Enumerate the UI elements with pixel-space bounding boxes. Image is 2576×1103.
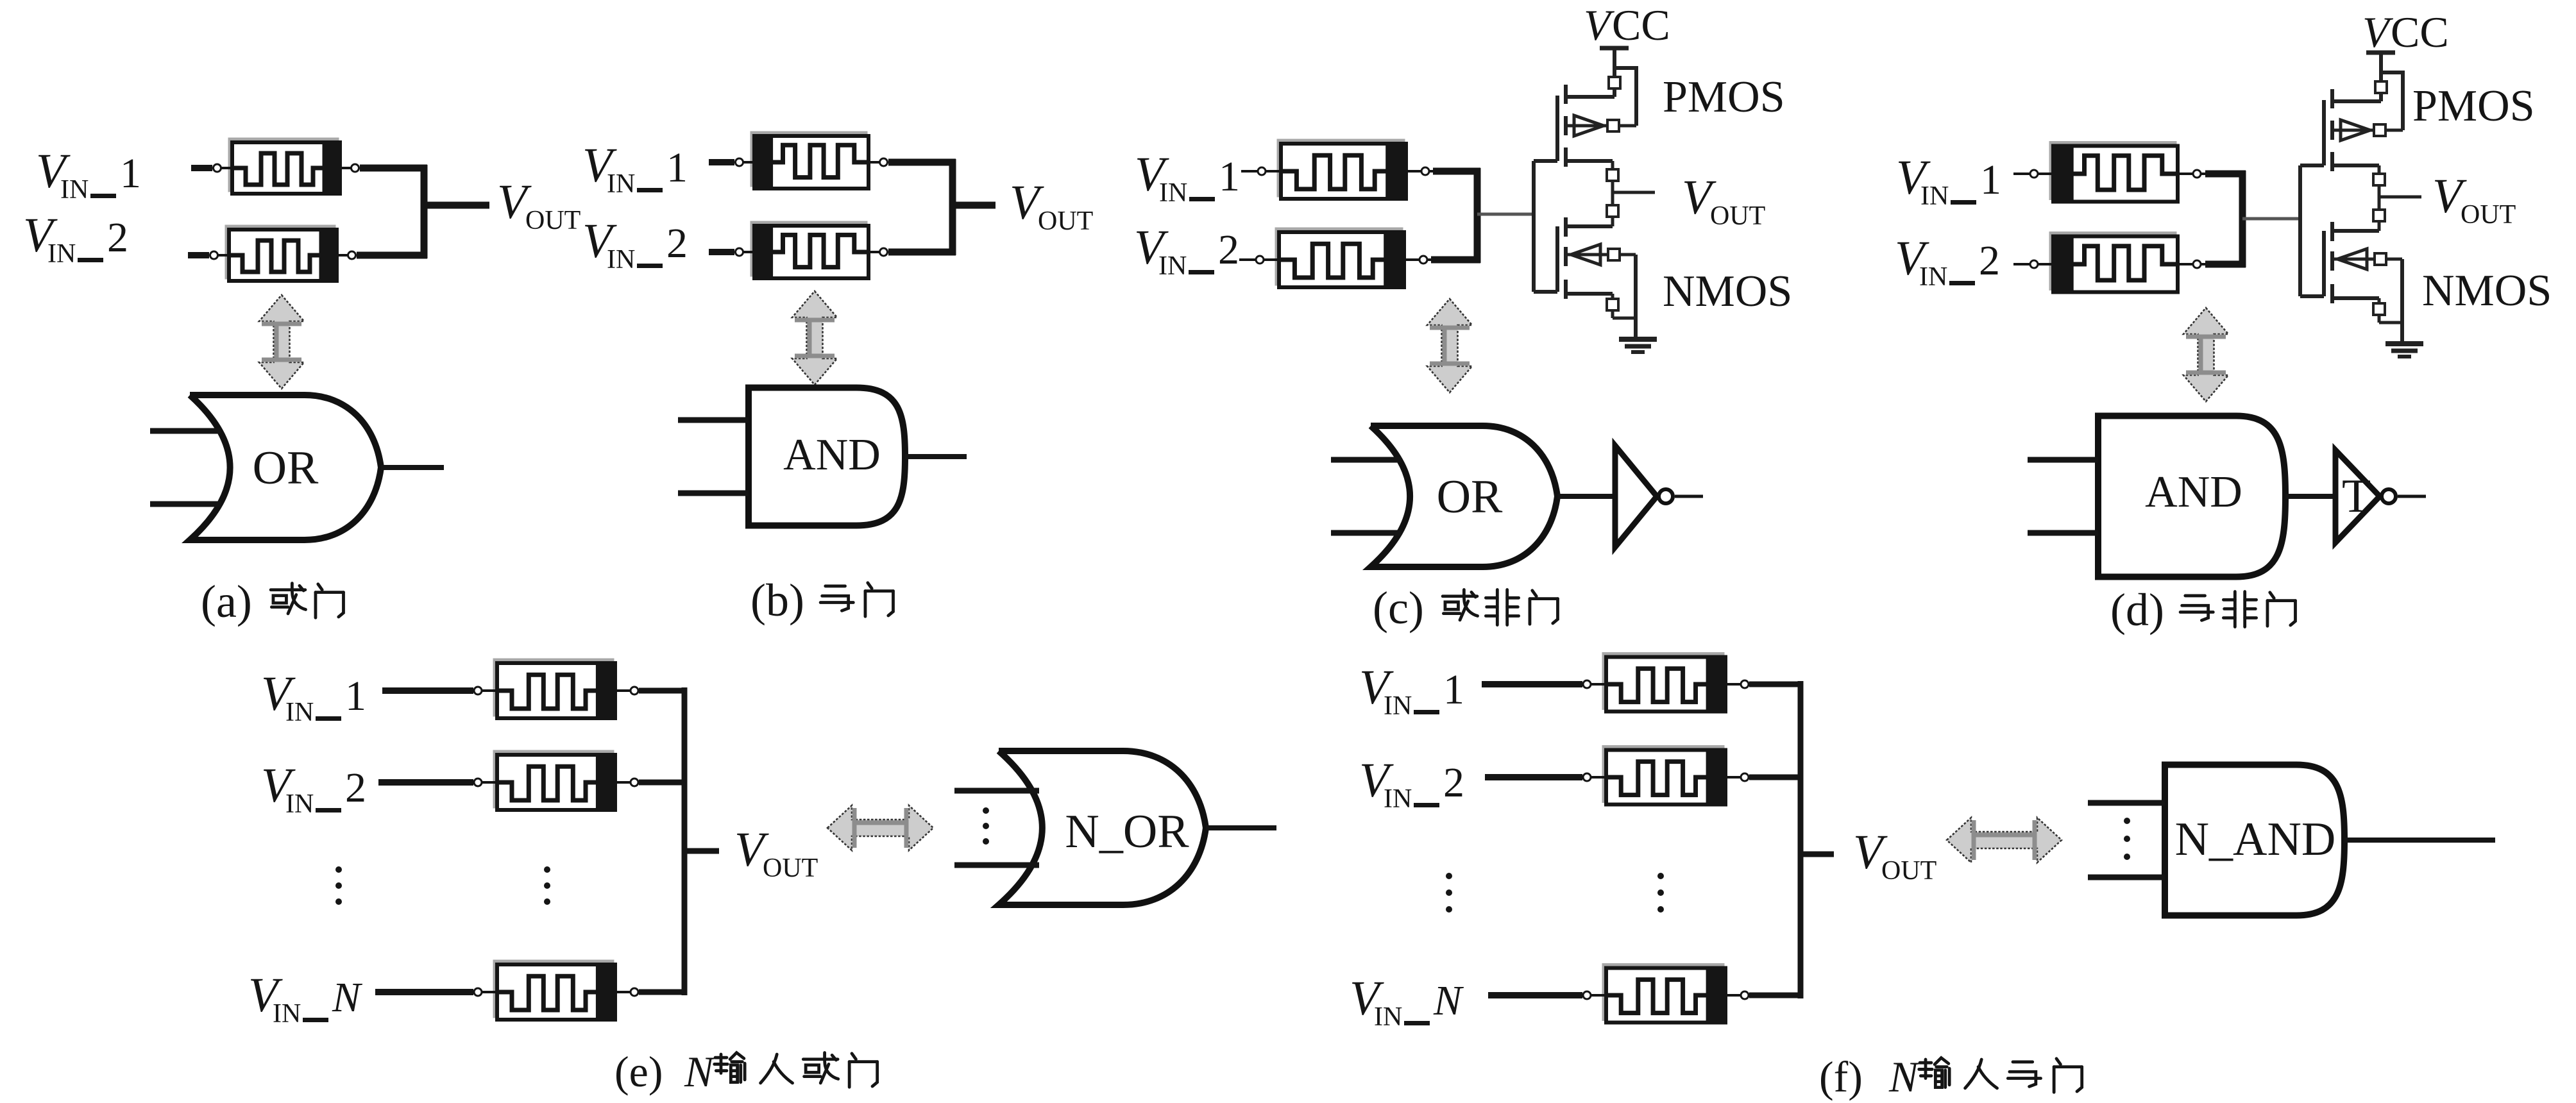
- (d) NMOS channel segments: [2330, 222, 2334, 241]
- wire V_IN_2 to memristor M2 (e): [378, 779, 473, 786]
- (d) PMOS body contact square: [2374, 124, 2385, 136]
- (d) NMOS source to rail wire: [2378, 315, 2381, 323]
- (c) NMOS body to ground rail: [1620, 253, 1636, 257]
- memristor M1 (d): [2013, 143, 2206, 202]
- wire M1 output to junction (d): [2205, 171, 2246, 178]
- svg-text:1: 1: [1980, 156, 2001, 203]
- memristor M2 (b): [736, 223, 888, 278]
- svg-text:1: 1: [345, 673, 366, 720]
- svg-text:(a): (a): [201, 576, 252, 627]
- caption (b) AND gate: [750, 575, 893, 626]
- (d) PMOS drain stub: [2332, 99, 2381, 103]
- junction bar (a): [421, 165, 428, 258]
- (d) NMOS body to ground rail: [2386, 258, 2402, 261]
- OR gate symbol (c): [1331, 426, 1613, 567]
- ellipsis dots left (e): [335, 866, 342, 905]
- svg-text:PMOS: PMOS: [2412, 81, 2535, 131]
- (c) wire to NMOS drain: [1611, 217, 1614, 226]
- (d) NMOS body contact square: [2375, 253, 2386, 265]
- ellipsis dots left (f): [1446, 873, 1452, 913]
- junction bar (c): [1474, 168, 1481, 263]
- net label V_IN_1 (c): [1135, 147, 1240, 208]
- (d) wire stem to PMOS drain: [2379, 93, 2383, 101]
- (c) NMOS body arrow: [1571, 244, 1600, 265]
- memristor M2 (e): [474, 752, 638, 810]
- wire M2 output to junction (d): [2205, 261, 2246, 268]
- (d) NMOS source contact square: [2373, 303, 2385, 315]
- net label V_IN_2 (d): [1895, 232, 2000, 292]
- svg-text:N: N: [684, 1047, 716, 1096]
- wire V_IN_N to memristor MN (e): [375, 989, 473, 995]
- (c) NMOS source contact square: [1607, 299, 1618, 310]
- (d) NMOS source wire down: [2378, 298, 2381, 303]
- (d) PMOS channel segments: [2330, 89, 2334, 108]
- svg-text:(b): (b): [750, 575, 804, 626]
- net label V_IN_2 (a): [23, 208, 128, 269]
- equivalence arrow (c): [1427, 299, 1472, 392]
- (c) PMOS source stub: [1566, 159, 1613, 163]
- junction bar (d): [2239, 171, 2246, 267]
- svg-text:CC: CC: [1612, 1, 1670, 49]
- net label V_IN_1 (f): [1359, 661, 1464, 721]
- net label V_IN_2 (c): [1134, 221, 1239, 281]
- wire V_IN_2 to memristor M2 (f): [1485, 774, 1582, 780]
- wire M2 to bus (f): [1749, 775, 1803, 780]
- svg-text:AND: AND: [783, 430, 881, 480]
- (d) PMOS body to rail wire: [2385, 129, 2403, 132]
- svg-text:N: N: [1433, 977, 1464, 1024]
- wire M1 output to junction (a): [360, 165, 427, 172]
- svg-text:1: 1: [1219, 153, 1240, 200]
- AND gate symbol (d): [2028, 416, 2347, 577]
- svg-text:2: 2: [666, 220, 688, 267]
- caption (a) OR gate: [201, 576, 343, 627]
- wire M1 to bus (f): [1749, 682, 1803, 687]
- caption (e) N-input OR gate: [614, 1047, 877, 1096]
- svg-text:IN: IN: [1384, 691, 1412, 721]
- (c) wire VCC to body rail: [1614, 66, 1636, 70]
- equivalence arrow (a): [259, 295, 304, 389]
- svg-text:OUT: OUT: [1038, 206, 1093, 236]
- (d) PMOS body wire: [2332, 129, 2374, 132]
- (c) output node wire: [1611, 181, 1614, 205]
- (c) PMOS channel segments: [1564, 85, 1568, 104]
- (d) NMOS drain stub: [2332, 229, 2379, 233]
- net label V_IN_1 (b): [582, 139, 688, 199]
- wire junction to gates (c): [1477, 213, 1534, 216]
- svg-text:IN: IN: [1159, 178, 1187, 208]
- svg-text:1: 1: [120, 150, 141, 197]
- (c) NMOS channel segments: [1564, 217, 1568, 237]
- net label V_IN_N (f): [1350, 972, 1464, 1032]
- ellipsis dots middle (f): [1657, 873, 1664, 913]
- (c) output node square upper: [1607, 169, 1618, 181]
- (d) NMOS body wire: [2332, 258, 2375, 261]
- wire junction to gates (d): [2242, 217, 2300, 221]
- svg-text:OUT: OUT: [763, 854, 818, 883]
- wire V_IN_1 to memristor M1 (a): [191, 165, 212, 171]
- memristor M1 (e): [474, 660, 638, 718]
- net label V_OUT (e): [734, 823, 818, 883]
- svg-text:IN: IN: [1374, 1002, 1402, 1032]
- (d) wire VCC to body rail: [2381, 71, 2403, 74]
- svg-text:CC: CC: [2391, 8, 2449, 56]
- equivalence arrow (e): [827, 805, 933, 850]
- wire V_IN_1 to memristor M1 (b): [709, 159, 734, 165]
- wire M2 to bus (e): [639, 780, 687, 786]
- svg-text:T: T: [2342, 470, 2371, 523]
- (d) NMOS source stub: [2332, 296, 2379, 300]
- wire V_IN_1 to memristor M1 (e): [382, 687, 473, 694]
- memristor M2 (f): [1583, 747, 1749, 805]
- equivalence arrow (d): [2183, 308, 2228, 401]
- (d) common gate rail: [2298, 165, 2302, 296]
- svg-text:IN: IN: [1158, 251, 1187, 281]
- svg-text:(c): (c): [1373, 582, 1424, 634]
- output bus (f): [1798, 681, 1804, 998]
- svg-text:IN: IN: [1384, 784, 1412, 814]
- AND gate symbol (b): [678, 388, 967, 526]
- wire V_IN_N to memristor MN (f): [1488, 992, 1582, 998]
- memristor M1 (f): [1583, 654, 1749, 712]
- (d) output node square upper: [2373, 174, 2385, 185]
- net label V_OUT (a): [497, 175, 580, 235]
- svg-text:OUT: OUT: [1881, 856, 1936, 886]
- svg-text:2: 2: [1443, 759, 1464, 806]
- (c) PMOS body contact square: [1607, 120, 1619, 131]
- memristor MN (e): [474, 961, 638, 1020]
- svg-text:IN: IN: [607, 169, 635, 199]
- (d) NMOS body arrow: [2337, 249, 2367, 269]
- (c) NMOS source wire down: [1611, 294, 1614, 299]
- ellipsis dots middle (e): [544, 866, 550, 905]
- svg-text:NMOS: NMOS: [1663, 267, 1792, 316]
- svg-text:IN: IN: [273, 999, 301, 1029]
- svg-text:1: 1: [666, 144, 688, 191]
- caption (f) N-input AND gate: [1819, 1052, 2082, 1101]
- (c) wire PMOS source down: [1611, 161, 1614, 169]
- caption (c) NOR gate: [1373, 582, 1557, 634]
- svg-text:IN: IN: [607, 245, 635, 274]
- svg-text:(e): (e): [614, 1047, 663, 1096]
- memristor M1 (a): [214, 139, 359, 194]
- net label V_IN_N (e): [248, 968, 363, 1029]
- wire V_IN_2 to memristor M2 (b): [709, 249, 734, 255]
- svg-text:2: 2: [1218, 226, 1239, 273]
- svg-text:N_AND: N_AND: [2175, 813, 2336, 866]
- (c) PMOS body wire: [1566, 124, 1607, 128]
- (d) ground symbol: [2385, 341, 2423, 346]
- svg-text:2: 2: [107, 214, 128, 261]
- net label V_OUT (d): [2432, 169, 2516, 230]
- memristor MN (f): [1583, 965, 1749, 1023]
- (d) PMOS drain contact square: [2375, 81, 2387, 93]
- svg-text:OUT: OUT: [2461, 200, 2516, 230]
- OR gate symbol (a): [150, 395, 444, 540]
- (d) VCC stem wire: [2379, 53, 2383, 81]
- net label V_IN_2 (b): [582, 214, 688, 274]
- (c) PMOS drain stub: [1566, 95, 1614, 99]
- (d) PMOS source stub: [2332, 164, 2379, 167]
- wire V_OUT stub (e): [684, 848, 719, 854]
- svg-text:NMOS: NMOS: [2422, 266, 2552, 316]
- net label V_IN_1 (d): [1896, 151, 2001, 211]
- svg-text:IN: IN: [285, 698, 314, 727]
- (d) wire to NMOS drain: [2378, 221, 2381, 231]
- (c) NMOS source stub: [1566, 292, 1613, 296]
- wire V_OUT stub (a): [424, 202, 489, 209]
- gate input dots (e): [983, 807, 989, 845]
- svg-text:OR: OR: [253, 442, 319, 494]
- net label V_IN_2 (f): [1359, 754, 1464, 814]
- svg-text:(f): (f): [1819, 1052, 1863, 1101]
- wire V_OUT stub (f): [1801, 852, 1834, 857]
- net label V_OUT (f): [1853, 825, 1936, 886]
- memristor M1 (b): [736, 133, 888, 189]
- N_OR gate symbol (e): [954, 751, 1276, 905]
- net label V_IN_2 (e): [261, 759, 366, 819]
- (c) PMOS body arrow: [1574, 115, 1604, 136]
- net label V_OUT (b): [1010, 176, 1093, 236]
- svg-text:IN: IN: [1919, 262, 1947, 292]
- (c) common gate rail: [1532, 161, 1536, 292]
- (c) ground symbol: [1619, 337, 1657, 342]
- (d) VCC supply bar: [2366, 51, 2395, 55]
- svg-text:N: N: [332, 974, 363, 1021]
- svg-text:V: V: [1584, 1, 1615, 49]
- wire M2 output to junction (a): [357, 252, 427, 259]
- wire M1 to bus (e): [639, 688, 687, 694]
- (c) VCC supply bar: [1600, 46, 1629, 51]
- svg-text:IN: IN: [47, 239, 76, 269]
- (c) NMOS drain stub: [1566, 224, 1613, 228]
- svg-text:N: N: [1888, 1052, 1920, 1101]
- caption (d) NAND gate: [2110, 584, 2295, 636]
- (c) PMOS gate line: [1555, 96, 1559, 161]
- svg-text:(d): (d): [2110, 584, 2164, 636]
- memristor M2 (a): [210, 226, 356, 281]
- equivalence arrow (b): [792, 291, 837, 385]
- wire MN to bus (f): [1749, 993, 1803, 998]
- wire M2 output to junction (c): [1431, 257, 1480, 264]
- gate input dots (f): [2124, 818, 2130, 860]
- (d) PMOS gate line: [2322, 100, 2326, 165]
- (d) NMOS gate line: [2322, 231, 2326, 296]
- net label V_OUT (c): [1682, 171, 1765, 231]
- wire M1 output to junction (c): [1433, 168, 1480, 175]
- wire V_OUT stub (b): [953, 202, 996, 209]
- (d) VOUT tap wire: [2379, 196, 2421, 199]
- svg-text:V: V: [2362, 8, 2394, 56]
- (c) VOUT tap wire: [1613, 191, 1655, 194]
- wire V_IN_2 to memristor M2 (a): [188, 252, 209, 258]
- svg-text:AND: AND: [2145, 467, 2242, 517]
- (c) PMOS body to rail wire: [1619, 124, 1636, 128]
- svg-text:2: 2: [1979, 237, 2000, 284]
- equivalence arrow (f): [1947, 818, 2062, 863]
- wire MN to bus (e): [639, 989, 687, 995]
- (c) NMOS source to rail wire: [1611, 310, 1614, 318]
- wire V_IN_1 to memristor M1 (f): [1482, 681, 1582, 687]
- junction bar (b): [949, 159, 956, 255]
- svg-text:2: 2: [345, 764, 366, 811]
- (c) NMOS body contact square: [1608, 249, 1620, 260]
- (c) wire stem to PMOS drain: [1613, 88, 1616, 97]
- svg-text:1: 1: [1443, 666, 1464, 713]
- svg-text:PMOS: PMOS: [1663, 72, 1785, 122]
- (c) output node square lower: [1607, 205, 1618, 217]
- output bus (e): [682, 687, 688, 995]
- (c) VCC stem wire: [1613, 48, 1616, 77]
- memristor M2 (d): [2013, 233, 2206, 292]
- svg-text:OUT: OUT: [525, 206, 580, 235]
- (d) output node square lower: [2373, 210, 2385, 221]
- N_AND gate symbol (f): [2088, 765, 2495, 916]
- (c) NMOS gate line: [1555, 226, 1559, 292]
- svg-text:OR: OR: [1437, 471, 1503, 523]
- svg-text:OUT: OUT: [1710, 201, 1765, 231]
- svg-text:IN: IN: [1920, 181, 1949, 211]
- svg-text:IN: IN: [60, 175, 89, 205]
- inverter symbol (c): [1615, 446, 1703, 547]
- (c) NMOS body wire: [1566, 253, 1608, 257]
- wire M1 output to junction (b): [888, 159, 956, 166]
- (d) PMOS body arrow: [2341, 120, 2370, 140]
- (d) wire PMOS source down: [2378, 165, 2381, 174]
- net label V_IN_1 (a): [36, 144, 141, 205]
- inverter symbol (d): [2335, 450, 2426, 543]
- memristor M2 (c): [1239, 229, 1432, 287]
- (d) output node wire: [2378, 185, 2381, 210]
- net label V_IN_1 (e): [261, 667, 366, 727]
- svg-text:IN: IN: [285, 789, 314, 819]
- (c) PMOS drain contact square: [1609, 77, 1620, 88]
- memristor M1 (c): [1241, 140, 1434, 199]
- svg-text:N_OR: N_OR: [1065, 805, 1189, 858]
- wire M2 output to junction (b): [888, 249, 956, 256]
